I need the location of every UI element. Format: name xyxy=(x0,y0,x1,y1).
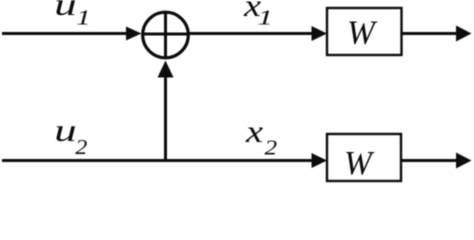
svg-text:u: u xyxy=(54,0,76,22)
svg-text:2: 2 xyxy=(265,136,278,160)
arrowhead into top W block xyxy=(312,26,328,41)
svg-text:W: W xyxy=(347,15,378,52)
wire: x1 line from junction to block W (top) xyxy=(189,32,314,35)
summing junction circle xyxy=(143,12,189,58)
wire: input u2 horizontal line xyxy=(2,159,313,162)
wire: output of top W block xyxy=(402,32,459,35)
summing junction plus horizontal bar xyxy=(143,33,188,36)
wire: vertical feed line from u2 up to summing junction xyxy=(164,76,167,161)
block W top rectangle xyxy=(327,8,402,55)
arrowhead into summing junction (bottom) xyxy=(158,61,174,78)
svg-text:1: 1 xyxy=(76,6,91,30)
block W bottom rectangle xyxy=(327,134,401,181)
svg-text:x: x xyxy=(245,114,263,149)
wire: output of bottom W block xyxy=(401,159,458,162)
svg-text:2: 2 xyxy=(75,135,87,158)
arrowhead bottom-right output xyxy=(456,153,472,169)
arrowhead top-right output xyxy=(456,26,472,42)
svg-text:u: u xyxy=(54,113,76,148)
wire: input u1 horizontal line xyxy=(2,32,128,35)
arrowhead into summing junction (left) xyxy=(126,27,142,41)
summing junction plus vertical bar xyxy=(164,13,167,58)
svg-text:1: 1 xyxy=(257,6,273,30)
svg-text:W: W xyxy=(344,145,375,182)
arrowhead into bottom W block xyxy=(312,153,328,168)
